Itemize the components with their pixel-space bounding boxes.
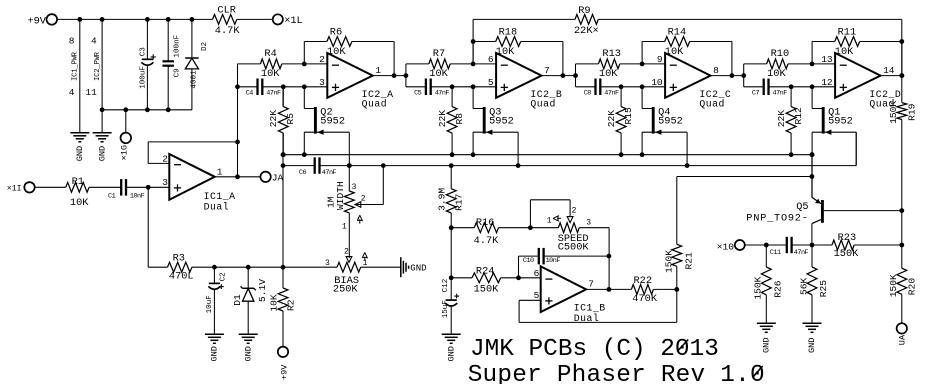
svg-text:Super Phaser Rev 1.0: Super Phaser Rev 1.0 xyxy=(468,362,765,384)
svg-text:10K: 10K xyxy=(327,46,346,58)
resistor R6 10K (feedback) xyxy=(327,26,352,58)
resistor R25 56K xyxy=(798,245,829,323)
wire source bias rail xyxy=(283,154,812,156)
svg-text:R6: R6 xyxy=(330,26,342,38)
capacitor C6 47nF xyxy=(299,157,337,177)
nodes stage4 non-inverting line xyxy=(789,84,815,89)
svg-text:150K: 150K xyxy=(474,284,500,296)
wire C5 to pin xyxy=(431,86,496,88)
ground GND (BIAS, right-facing) xyxy=(401,257,427,277)
node Q2 source on source rail xyxy=(302,152,307,157)
svg-text:C2: C2 xyxy=(220,272,228,282)
wire stage1 output xyxy=(373,75,406,77)
op-amp IC1_B xyxy=(534,266,606,324)
svg-text:R1: R1 xyxy=(72,176,84,188)
svg-text:5.1V: 5.1V xyxy=(257,279,268,302)
svg-text:1: 1 xyxy=(342,222,347,231)
wire R1 to C1 xyxy=(89,186,121,188)
wire C8 to pin xyxy=(600,86,665,88)
resistor CLR 4.7K xyxy=(213,4,241,37)
transistor Q2 5952 (JFET) xyxy=(304,87,349,166)
node R5 on source rail xyxy=(281,152,286,157)
wire IC1_A output xyxy=(215,176,261,178)
op-amp IC2_B xyxy=(488,53,562,110)
capacitor C9 100nF xyxy=(163,19,182,109)
svg-text:IC2_PWR: IC2_PWR xyxy=(94,51,102,81)
node Q3 gate on LFO rail xyxy=(516,163,521,168)
svg-text:R3: R3 xyxy=(173,253,185,265)
svg-text:JMK PCBs (C) 2013: JMK PCBs (C) 2013 xyxy=(470,336,719,363)
nodes stage2 non-inverting line xyxy=(450,84,476,89)
svg-text:GND: GND xyxy=(762,338,772,353)
resistor R22 470K xyxy=(631,275,676,305)
node WIDTH wiper tap xyxy=(381,163,386,168)
svg-text:22K: 22K xyxy=(437,110,448,128)
wire C1 to IC1_A pin 3 xyxy=(126,186,169,188)
svg-text:150K: 150K xyxy=(663,250,674,273)
wire stage3 input column xyxy=(575,64,577,87)
capacitor C11 47nF xyxy=(770,237,809,257)
svg-text:5: 5 xyxy=(534,290,540,301)
svg-text:Dual: Dual xyxy=(204,202,230,213)
wire R9 left leg xyxy=(472,19,474,64)
node Q4 gate on LFO rail xyxy=(685,163,690,168)
node stage1 output xyxy=(392,73,409,78)
wire LFO gate rail (left of C6) xyxy=(283,165,315,167)
svg-text:22K: 22K xyxy=(776,110,787,128)
wire R5 column rails crossing xyxy=(282,133,284,267)
wire R10 to pin xyxy=(788,63,835,65)
svg-text:R13: R13 xyxy=(602,48,621,60)
svg-text:47nF: 47nF xyxy=(266,90,281,98)
node Q4 source on source rail xyxy=(640,152,645,157)
svg-text:4001: 4001 xyxy=(190,70,198,89)
svg-text:2: 2 xyxy=(344,248,349,257)
node stage2 output xyxy=(561,73,578,78)
op-amp IC2_A xyxy=(319,53,393,110)
node stage2 inverting input xyxy=(471,62,476,67)
svg-text:4.7K: 4.7K xyxy=(215,25,241,37)
svg-text:D2: D2 xyxy=(201,41,209,51)
svg-text:47nF: 47nF xyxy=(322,169,337,177)
wire LFO gate rail (right of C6) xyxy=(320,132,857,165)
node stage3 output xyxy=(730,73,747,78)
wire +9V top rail xyxy=(57,18,212,20)
terminal *1I xyxy=(7,182,35,193)
svg-text:1: 1 xyxy=(547,217,552,226)
svg-text:10nF: 10nF xyxy=(546,257,561,265)
svg-text:CLR: CLR xyxy=(217,4,236,16)
svg-text:C9: C9 xyxy=(174,68,182,78)
resistor R16 4.7K xyxy=(451,217,530,247)
svg-text:1: 1 xyxy=(217,167,223,178)
svg-text:×1G: ×1G xyxy=(120,145,130,160)
junction dots power bottom rail xyxy=(100,107,171,112)
node IC1_A output xyxy=(235,140,240,180)
svg-text:R21: R21 xyxy=(683,252,694,270)
svg-text:4: 4 xyxy=(91,36,97,47)
resistor R11 10K (feedback) xyxy=(835,26,860,58)
svg-text:5: 5 xyxy=(488,77,494,88)
svg-text:10uF: 10uF xyxy=(206,295,214,314)
terminal *1L xyxy=(273,14,303,27)
diode D1 5.1V zener xyxy=(232,267,268,334)
svg-text:4: 4 xyxy=(69,87,75,98)
capacitor C3 100uF xyxy=(140,19,156,109)
svg-text:R14: R14 xyxy=(668,26,687,38)
wire stage2 output xyxy=(542,75,576,77)
svg-text:470K: 470K xyxy=(632,293,658,305)
node at IC1_A pin 3 xyxy=(146,185,151,190)
wire R3 bias node line xyxy=(192,266,337,268)
nodes stage3 non-inverting line xyxy=(619,84,645,89)
svg-text:GND: GND xyxy=(97,146,107,161)
svg-text:IC1_A: IC1_A xyxy=(204,191,236,202)
svg-text:R19: R19 xyxy=(907,103,918,121)
diode D2 4001 xyxy=(185,19,209,109)
wire SPEED pin3 column xyxy=(608,228,610,290)
svg-text:9: 9 xyxy=(657,54,663,65)
svg-text:GND: GND xyxy=(410,263,426,273)
resistor R4 10K xyxy=(260,48,281,80)
svg-text:1: 1 xyxy=(375,65,381,76)
svg-text:R25: R25 xyxy=(818,280,829,298)
svg-text:22K: 22K xyxy=(606,110,617,128)
svg-text:WIDTH: WIDTH xyxy=(335,181,346,210)
resistor R15 22K xyxy=(606,87,634,155)
svg-text:150K: 150K xyxy=(834,248,860,260)
resistor R21 150K xyxy=(663,177,812,290)
wire C11 to R23 xyxy=(792,244,832,246)
potentiometer arrows (WIDTH/BIAS) xyxy=(357,215,367,261)
svg-text:3: 3 xyxy=(325,259,330,268)
svg-text:C1: C1 xyxy=(108,192,116,200)
svg-text:10K: 10K xyxy=(599,68,618,80)
svg-text:+9V: +9V xyxy=(27,15,46,27)
svg-text:2: 2 xyxy=(319,54,325,65)
svg-text:D1: D1 xyxy=(232,294,243,306)
node WIDTH top on LFO rail xyxy=(347,163,352,168)
capacitor C4 47nF xyxy=(246,79,281,98)
resistor R2 10K xyxy=(268,267,296,311)
node Q5 base at output column xyxy=(899,208,904,213)
node C10 at SPEED column xyxy=(607,254,612,259)
svg-text:GND: GND xyxy=(75,146,85,161)
svg-text:IC1_PWR: IC1_PWR xyxy=(72,51,80,81)
potentiometer BIAS 250K xyxy=(325,248,401,296)
svg-text:R18: R18 xyxy=(499,26,518,38)
ground GND (IC1_PWR) xyxy=(70,133,89,162)
svg-text:47nF: 47nF xyxy=(773,90,788,98)
svg-text:6: 6 xyxy=(488,54,494,65)
title text line 2 xyxy=(468,362,765,384)
svg-text:3: 3 xyxy=(586,219,591,228)
ground GND (R25) xyxy=(803,323,822,353)
node R26 top xyxy=(764,243,769,248)
resistor R20 150K xyxy=(888,245,917,323)
wire stage4 top line xyxy=(744,63,767,65)
capacitor C1 10nF xyxy=(108,179,145,200)
wire IC1_A output column up to stage 1 xyxy=(237,64,239,177)
resistor R7 10K xyxy=(429,48,450,80)
svg-text:56K: 56K xyxy=(798,277,809,295)
resistor R12 22K xyxy=(776,87,804,155)
svg-text:5952: 5952 xyxy=(489,116,514,128)
node R9 at stage2 feedback xyxy=(471,39,476,44)
wire stage2 input column xyxy=(405,64,407,87)
power symbol IC2_PWR pin 4 / pin 11 xyxy=(85,19,102,132)
wire R9 right leg xyxy=(901,19,903,75)
svg-text:R24: R24 xyxy=(476,265,495,277)
wire IC1_A pin3 column down to R3 xyxy=(147,187,149,267)
svg-text:15uF: 15uF xyxy=(442,300,450,319)
capacitor C7 47nF xyxy=(752,79,787,98)
title zero slashes xyxy=(677,340,762,378)
transistor Q1 5952 (JFET) xyxy=(812,87,856,198)
svg-text:3.9M: 3.9M xyxy=(436,188,447,211)
svg-text:R26: R26 xyxy=(772,280,783,298)
svg-text:3: 3 xyxy=(162,177,168,188)
svg-text:IC1_B: IC1_B xyxy=(574,302,606,313)
terminal *1G xyxy=(120,110,131,161)
svg-text:×1I: ×1I xyxy=(7,184,22,193)
resistor R17 3.9M xyxy=(436,166,464,301)
resistor R3 470L xyxy=(148,253,193,283)
svg-text:11: 11 xyxy=(85,87,97,98)
junction dots on +9V rail xyxy=(77,17,194,22)
op-amp IC2_D xyxy=(821,53,901,110)
wire R7 to pin xyxy=(450,63,496,65)
terminal UA xyxy=(897,323,908,345)
svg-text:R5: R5 xyxy=(285,113,296,125)
svg-text:C7: C7 xyxy=(752,90,760,98)
wire power bottom rail xyxy=(102,109,192,111)
svg-text:470L: 470L xyxy=(169,271,194,283)
resistor R8 22K xyxy=(437,87,465,155)
ground GND (R26) xyxy=(757,323,776,353)
node LFO rail left end xyxy=(281,163,286,168)
svg-text:C12: C12 xyxy=(442,278,450,292)
wire stage2 bottom line xyxy=(406,86,426,88)
svg-text:2: 2 xyxy=(361,195,366,204)
svg-text:R12: R12 xyxy=(793,107,804,125)
svg-text:R20: R20 xyxy=(907,278,918,296)
resistor R1 10K xyxy=(66,176,90,209)
svg-text:5952: 5952 xyxy=(658,116,683,128)
svg-text:3: 3 xyxy=(319,77,325,88)
svg-text:GND: GND xyxy=(210,346,220,361)
terminal JA xyxy=(260,172,283,184)
svg-text:R2: R2 xyxy=(286,299,297,311)
node R8 on source rail xyxy=(450,152,455,157)
svg-text:47nF: 47nF xyxy=(794,249,809,257)
capacitor C5 47nF xyxy=(414,79,449,98)
wire R13 to pin xyxy=(620,63,665,65)
ground GND (D1) xyxy=(239,334,258,361)
resistor R24 150K xyxy=(451,265,541,295)
node IC1_B output xyxy=(607,287,612,292)
wire IC1_A pin 2 feedback xyxy=(148,142,237,164)
resistor R5 22K xyxy=(268,87,296,155)
node source rail left end xyxy=(281,152,286,157)
svg-text:10K: 10K xyxy=(70,197,89,209)
wire stage1 bottom line xyxy=(238,86,258,88)
terminal +9V (bottom) xyxy=(278,347,290,380)
node R24 at R17 column xyxy=(449,275,454,280)
wire R5 column to bias node xyxy=(282,87,284,107)
node R25 top / Q5 collector xyxy=(810,243,815,248)
ground GND (C2) xyxy=(205,334,224,361)
op-amp IC1_A xyxy=(162,153,235,212)
feedback wire stage1 xyxy=(304,42,394,76)
resistor R19 150K xyxy=(888,76,917,245)
svg-text:R10: R10 xyxy=(771,48,790,60)
svg-text:22K×: 22K× xyxy=(574,25,599,37)
svg-text:150K: 150K xyxy=(888,274,899,297)
node R12 on source rail xyxy=(789,152,794,157)
terminal x10 xyxy=(717,240,745,253)
node Q2 gate on LFO rail xyxy=(347,163,352,168)
nodes stage1 non-inverting line xyxy=(281,84,307,89)
svg-text:10K: 10K xyxy=(496,46,515,58)
wire C4 to pin xyxy=(262,86,327,88)
resistor R9 22K* xyxy=(473,5,902,37)
svg-text:100uF: 100uF xyxy=(140,66,148,89)
feedback wire stage3 xyxy=(642,42,732,76)
node Q1 source / rail end xyxy=(810,152,815,157)
node R19 bottom / R23 xyxy=(899,243,904,248)
svg-text:3: 3 xyxy=(352,183,357,192)
node R17 top on LFO rail xyxy=(449,163,454,168)
svg-text:GND: GND xyxy=(807,338,817,353)
junction dots bias line xyxy=(212,265,285,270)
svg-text:R22: R22 xyxy=(634,275,653,287)
resistor R10 10K xyxy=(767,48,790,80)
node stage1 C4 tap xyxy=(235,84,240,89)
svg-text:GND: GND xyxy=(446,346,456,361)
potentiometer WIDTH 1M xyxy=(325,166,383,258)
node IC1_B pin6 xyxy=(516,275,521,280)
wire stage3 top line xyxy=(576,63,599,65)
svg-text:4.7K: 4.7K xyxy=(474,235,500,247)
svg-text:PNP_TO92-: PNP_TO92- xyxy=(746,212,808,224)
op-amp IC2_C xyxy=(651,53,731,110)
node stage4 inverting input xyxy=(810,62,815,67)
wire IC1_B pin5 loop xyxy=(519,289,677,322)
svg-text:8: 8 xyxy=(713,65,719,76)
svg-text:10K: 10K xyxy=(261,68,280,80)
wire stage4 bottom line xyxy=(744,86,764,88)
svg-text:2: 2 xyxy=(162,153,168,164)
feedback wire stage2 xyxy=(473,42,563,76)
svg-text:R17: R17 xyxy=(454,194,465,211)
svg-text:8: 8 xyxy=(69,36,75,47)
svg-text:10K: 10K xyxy=(767,68,786,80)
wire IC1_B output xyxy=(586,288,631,290)
svg-text:10nF: 10nF xyxy=(130,192,145,200)
svg-text:C8: C8 xyxy=(584,90,592,98)
resistor R13 10K xyxy=(598,48,621,80)
node stage1 inverting input xyxy=(302,62,307,67)
wire R4 to pin xyxy=(282,63,328,65)
wire x10 to C11 xyxy=(745,244,787,246)
svg-text:GND: GND xyxy=(243,346,253,361)
svg-text:12: 12 xyxy=(821,77,833,88)
wire stage3 bottom line xyxy=(576,86,596,88)
svg-text:R16: R16 xyxy=(476,217,495,229)
node R9 at stage4 feedback xyxy=(899,39,904,44)
svg-text:Quad: Quad xyxy=(530,99,556,110)
capacitor C2 10uF xyxy=(206,267,227,334)
node R16 at R17 column xyxy=(449,225,454,230)
svg-text:47nF: 47nF xyxy=(604,90,619,98)
svg-text:R7: R7 xyxy=(433,48,445,60)
transistor Q5 PNP_TO92- xyxy=(746,197,902,245)
svg-text:10K: 10K xyxy=(429,68,448,80)
node stage4 output junction xyxy=(899,73,904,78)
svg-text:13: 13 xyxy=(821,54,833,65)
resistor R18 10K (feedback) xyxy=(496,26,521,58)
svg-text:10K: 10K xyxy=(268,294,279,312)
resistor R14 10K (feedback) xyxy=(665,26,690,58)
svg-text:10: 10 xyxy=(651,77,663,88)
transistor Q3 5952 (JFET) xyxy=(473,87,518,166)
node R16 at SPEED pin1 xyxy=(528,225,533,230)
svg-text:R9: R9 xyxy=(578,5,590,17)
svg-text:C500K: C500K xyxy=(558,242,590,254)
title text line 1 xyxy=(470,336,719,363)
terminal +9V (top-left) xyxy=(27,14,57,27)
svg-text:R4: R4 xyxy=(264,48,276,60)
node stage3 inverting input xyxy=(640,62,645,67)
wire stage4 output xyxy=(881,75,902,77)
svg-text:Quad: Quad xyxy=(699,99,725,110)
wire C7 to pin xyxy=(769,86,836,88)
svg-text:JA: JA xyxy=(272,172,284,183)
svg-text:R15: R15 xyxy=(623,107,634,125)
ground GND (C12) xyxy=(442,334,461,361)
wire stage3 output xyxy=(711,75,744,77)
node stage4 output xyxy=(900,73,905,78)
svg-text:47nF: 47nF xyxy=(435,90,450,98)
svg-text:×1L: ×1L xyxy=(284,15,303,27)
svg-text:150K: 150K xyxy=(753,276,764,299)
svg-text:C6: C6 xyxy=(299,169,307,177)
node Q1 source on source rail xyxy=(810,152,815,157)
node Q3 source on source rail xyxy=(471,152,476,157)
svg-text:C3: C3 xyxy=(140,47,148,57)
node R21 at Q5 emitter column xyxy=(810,174,815,179)
svg-text:6: 6 xyxy=(534,268,540,279)
svg-text:5952: 5952 xyxy=(320,116,345,128)
wire *1I to R1 xyxy=(35,186,66,188)
svg-text:×10: ×10 xyxy=(717,242,735,253)
wire CLR to *1L xyxy=(237,18,273,20)
resistor R26 150K xyxy=(753,245,784,323)
node R15 on source rail xyxy=(619,152,624,157)
feedback wire stage4 xyxy=(812,42,902,76)
svg-text:C10: C10 xyxy=(523,257,534,265)
svg-text:14: 14 xyxy=(883,65,895,76)
wire Q1 source to Q5 xyxy=(811,155,813,198)
svg-text:R11: R11 xyxy=(838,26,857,38)
svg-text:R8: R8 xyxy=(454,113,465,125)
svg-text:100nF: 100nF xyxy=(174,34,182,57)
svg-text:7: 7 xyxy=(544,65,550,76)
capacitor C10 10nF xyxy=(519,248,609,278)
svg-text:2: 2 xyxy=(572,207,577,216)
wire stage4 input column xyxy=(743,64,745,87)
